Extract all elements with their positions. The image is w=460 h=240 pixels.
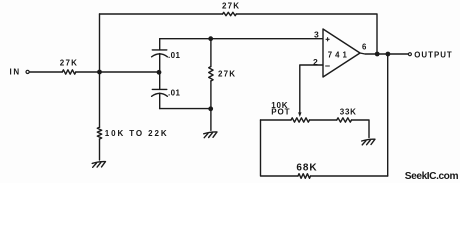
svg-text:33K: 33K [340, 108, 357, 117]
pot wiper arrowhead [298, 112, 301, 117]
svg-text:SeekIC.com: SeekIC.com [405, 171, 459, 182]
wire: op-amp output to OUTPUT terminal [360, 53, 408, 54]
wire: 27K shunt vertical column [210, 39, 212, 109]
svg-text:.01: .01 [168, 51, 180, 60]
svg-text:741: 741 [328, 51, 350, 60]
svg-text:68K: 68K [296, 162, 317, 173]
plus sign (non-inverting input marker) [326, 38, 329, 41]
wire: vertical from top wire through node A down to 10K-22K resistor [99, 14, 101, 160]
capacitor .01 (upper) [152, 50, 168, 57]
wire: top feedback run from node A to output node [100, 14, 378, 54]
svg-text:6: 6 [362, 43, 367, 52]
resistor 27K (input series) [62, 70, 76, 74]
wire: node A to capacitor column (mid horizontal) [100, 71, 160, 73]
node B junction dot (capacitor column on input line) [157, 70, 162, 75]
svg-text:OUTPUT: OUTPUT [414, 51, 452, 60]
svg-text:POT: POT [271, 108, 290, 117]
svg-text:27K: 27K [222, 2, 240, 11]
svg-text:3: 3 [314, 30, 319, 40]
potentiometer 10K POT element [291, 118, 310, 122]
OUTPUT terminal circle [408, 53, 411, 56]
svg-text:10K TO 22K: 10K TO 22K [105, 129, 169, 138]
wire: drop from shunt bottom junction to ground [210, 109, 212, 131]
wire: capacitor column vertical segments [159, 39, 161, 109]
minus sign (inverting input marker) [326, 65, 330, 67]
wire: top of capacitor column to op-amp pin 3 [160, 38, 323, 40]
svg-text:27K: 27K [218, 69, 236, 78]
resistor 27K (feedback, top) [223, 12, 237, 15]
junction dot (27K shunt top on pin-3 line) [208, 36, 213, 41]
junction dot (bottom network tap on output wire) [386, 52, 391, 57]
wire: bottom loop with 68K back to pot left end [261, 120, 388, 176]
svg-text:.01: .01 [168, 89, 180, 98]
resistor 10K TO 22K (vertical, to ground) [97, 127, 101, 139]
wire: pot left end to pot element [261, 119, 292, 121]
node A junction dot (input / feedback junction) [97, 70, 102, 75]
wire: output node down right side to bottom loop [387, 54, 389, 176]
wire: bottom of capacitor column to shunt bottom junction [160, 108, 211, 110]
wire: op-amp pin 2 to pot wiper [300, 65, 323, 113]
capacitor .01 (lower) [152, 89, 168, 96]
junction dot (shunt bottom / ground node) [208, 106, 213, 111]
resistor 33K [337, 118, 352, 122]
op-amp U1 741 triangle [323, 29, 360, 77]
ground (below 27K shunt) [204, 132, 217, 138]
resistor 68K (bottom loop) [298, 174, 311, 179]
ground (below 33K) [362, 139, 375, 145]
resistor 27K (shunt, vertical) [209, 67, 213, 82]
ground (below 10K-22K resistor) [92, 162, 105, 168]
wire: input line from IN terminal to node A [29, 71, 99, 73]
wire: 33K right end down to ground [352, 120, 370, 138]
svg-text:27K: 27K [60, 59, 78, 68]
IN terminal circle [26, 70, 29, 73]
junction dot (feedback tap on output wire) [375, 52, 380, 57]
wire: pot right end to 33K [310, 119, 337, 121]
svg-text:IN: IN [10, 68, 21, 77]
